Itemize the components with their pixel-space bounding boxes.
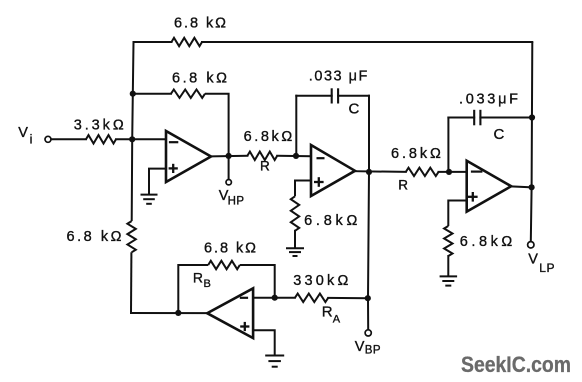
wire top feedback left segment: [134, 41, 172, 43]
svg-text:SeekIC.com: SeekIC.com: [461, 352, 571, 377]
wire BP rail: [368, 172, 369, 330]
resistor RA 330k: [295, 294, 328, 302]
node junction input / left rail: [129, 136, 135, 142]
wire C1 top left: [296, 95, 331, 97]
wire second feedback right segment: [205, 94, 229, 156]
svg-text:R: R: [322, 303, 333, 320]
svg-text:i: i: [30, 133, 33, 147]
svg-text:A: A: [333, 313, 341, 325]
resistor RB 6.8k: [208, 261, 240, 269]
svg-text:R: R: [260, 159, 270, 174]
resistor R3 6.8k A2 ground leg: [291, 196, 299, 231]
wire RB to A4 inverting node: [240, 265, 275, 298]
svg-text:R: R: [193, 269, 203, 285]
svg-text:6.8 kΩ: 6.8 kΩ: [174, 16, 226, 32]
wire RA to BP rail: [328, 297, 368, 299]
svg-text:HP: HP: [228, 195, 245, 207]
svg-text:6.8kΩ: 6.8kΩ: [304, 213, 357, 229]
wire C2 left vertical: [447, 118, 449, 172]
wire A1 output: [211, 155, 247, 158]
node junction RA / BP rail: [365, 295, 371, 301]
node junction left rail / R6: [130, 91, 136, 97]
wire A1 non-inverting to ground: [149, 169, 166, 195]
node junction A3 output / LP rail: [529, 184, 535, 190]
wire R1 to op-amp A1 inverting input: [116, 138, 166, 140]
svg-text:V: V: [18, 125, 28, 141]
svg-text:LP: LP: [539, 261, 555, 275]
op-amp A3: [467, 161, 512, 212]
wire right rail: [531, 42, 533, 242]
svg-text:6.8kΩ: 6.8kΩ: [244, 129, 293, 145]
svg-text:6.8kΩ: 6.8kΩ: [460, 234, 513, 250]
terminal VBP: [365, 330, 371, 336]
terminal VLP: [528, 242, 534, 248]
wire R4 to A3 inverting input: [439, 171, 467, 173]
wire R2 to A2 inverting input: [277, 155, 311, 157]
resistor R7 6.8k damping leg left rail: [127, 221, 135, 252]
node junction A1 output / VHP: [226, 153, 232, 159]
wire C2 top right: [480, 117, 532, 119]
svg-text:V: V: [528, 252, 538, 268]
wire second feedback left segment: [133, 93, 171, 95]
node junction A4 output / RB: [175, 310, 181, 316]
wire A4 output to left rail: [131, 312, 207, 314]
terminal VHP: [226, 180, 231, 185]
svg-text:B: B: [204, 278, 211, 290]
wire C1 right vertical: [368, 96, 370, 172]
terminal Vi: [45, 136, 51, 142]
ground A4: [265, 356, 284, 367]
wire RB loop: [178, 265, 208, 313]
node junction A2 output: [366, 169, 372, 175]
resistor R6 6.8k inner feedback: [171, 90, 205, 98]
wire A2 non-inverting lead: [295, 181, 311, 197]
wire A4 non-inverting to ground: [253, 330, 275, 355]
op-amp A2: [311, 145, 355, 196]
resistor R2 6.8k labelled R stage 1: [247, 152, 277, 160]
wire left rail lower: [130, 252, 132, 313]
capacitor C2 .033uF: [473, 110, 475, 126]
ground A3: [440, 276, 458, 285]
svg-text:.033 μF: .033 μF: [309, 69, 368, 85]
wire A4 inverting input: [253, 297, 295, 299]
svg-text:C: C: [349, 101, 360, 118]
svg-text:.033μF: .033μF: [459, 92, 518, 108]
svg-text:3.3kΩ: 3.3kΩ: [74, 117, 124, 133]
wire A2 output: [355, 170, 406, 173]
wire Vi to R1: [51, 138, 86, 140]
svg-text:C: C: [494, 126, 505, 143]
resistor R5 6.8k top feedback: [172, 38, 203, 46]
op-amp A1: [166, 131, 211, 182]
wire VHP stem: [228, 156, 230, 179]
wire C1 top right: [338, 95, 369, 97]
svg-text:BP: BP: [365, 344, 381, 356]
resistor R1 3.3k input: [86, 135, 116, 143]
wire C2 top left: [448, 117, 474, 119]
svg-text:V: V: [355, 339, 365, 355]
svg-text:6.8 kΩ: 6.8 kΩ: [204, 241, 256, 257]
resistor R4 6.8k labelled R stage 2: [406, 168, 439, 176]
svg-text:R: R: [398, 178, 408, 193]
wire A3 output: [511, 185, 531, 188]
ground A2: [286, 248, 304, 256]
node junction R2 / C1 feedback: [293, 153, 299, 159]
resistor R8 6.8k A3 ground leg: [444, 226, 452, 256]
svg-text:6.8kΩ: 6.8kΩ: [391, 146, 441, 162]
op-amp A4: [207, 288, 253, 338]
wire A3 non-inverting lead: [448, 201, 466, 227]
node junction C2 / LP rail: [529, 114, 535, 120]
ground A1: [141, 195, 158, 204]
node junction R4 / C2 feedback: [446, 169, 452, 175]
wire R8 to ground: [447, 256, 449, 276]
capacitor C1 .033uF: [331, 88, 333, 103]
wire R3 to ground: [294, 231, 296, 248]
wire left rail upper: [132, 42, 134, 221]
wire C1 left vertical: [295, 96, 297, 156]
node junction A4 inverting / RA: [272, 295, 278, 301]
wire top feedback right segment: [202, 41, 532, 43]
